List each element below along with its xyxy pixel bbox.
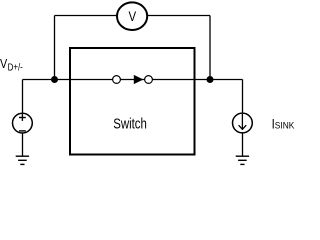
svg-text:D+/-: D+/- (8, 62, 23, 73)
svg-text:Switch: Switch (113, 115, 147, 132)
svg-text:V: V (129, 8, 137, 24)
svg-text:V: V (0, 56, 7, 71)
svg-text:SINK: SINK (275, 120, 295, 130)
